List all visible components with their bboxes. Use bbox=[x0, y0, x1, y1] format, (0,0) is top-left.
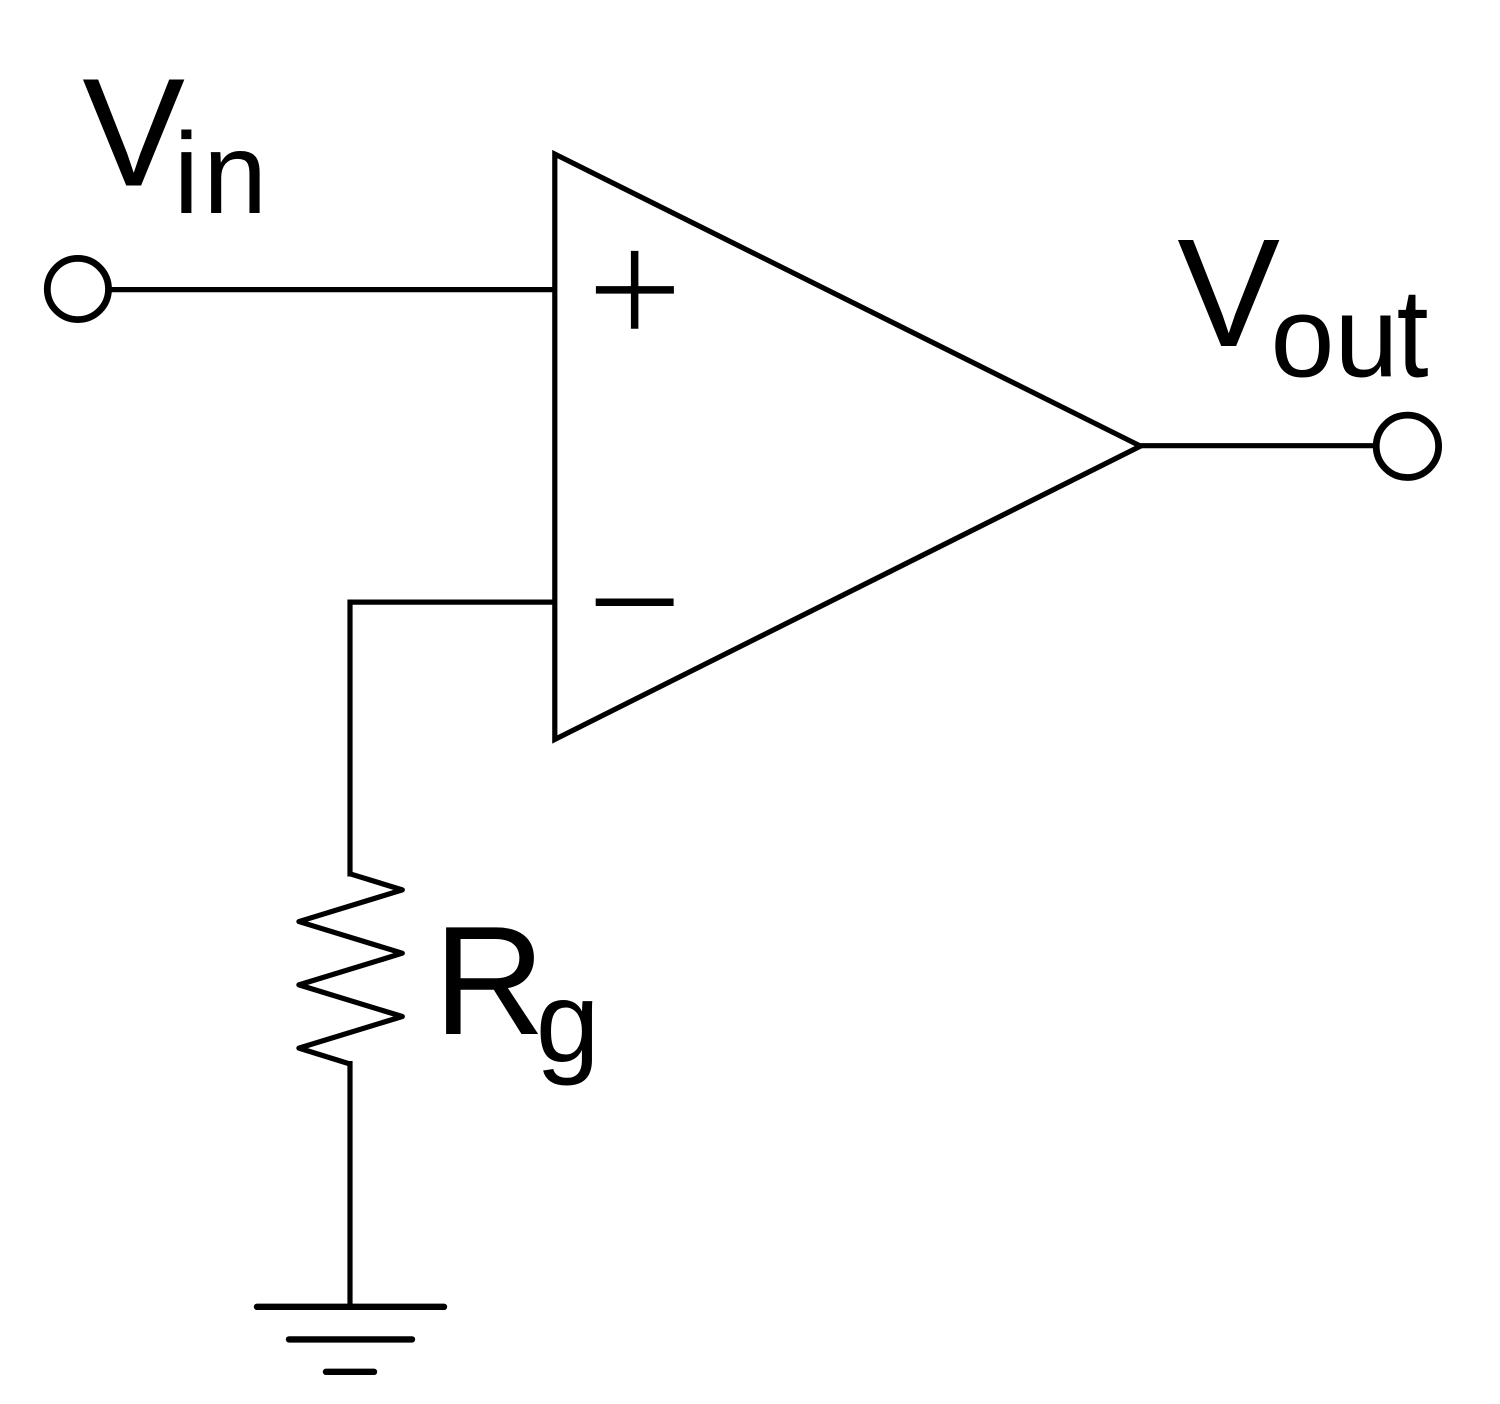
svg-text:ou: ou bbox=[1271, 274, 1399, 402]
svg-text:in: in bbox=[174, 110, 272, 238]
svg-text:V: V bbox=[1177, 207, 1280, 379]
svg-text:V: V bbox=[82, 47, 185, 219]
svg-text:t: t bbox=[1397, 262, 1429, 403]
svg-text:g: g bbox=[536, 958, 600, 1086]
svg-text:R: R bbox=[433, 894, 545, 1067]
